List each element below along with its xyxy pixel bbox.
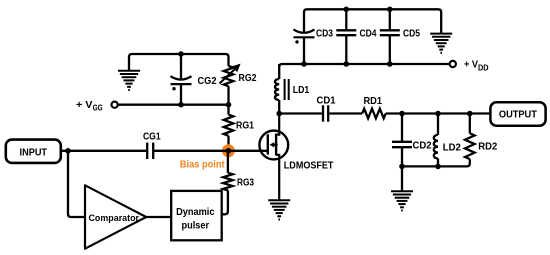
resistor RG3 <box>223 173 233 191</box>
svg-text:pulser: pulser <box>182 220 210 231</box>
OUTPUT box <box>490 102 545 125</box>
wire RG1 bottom lead <box>227 136 229 151</box>
capacitor CD1 <box>323 105 328 121</box>
bias point marker <box>222 144 235 157</box>
svg-text:GG: GG <box>93 104 103 113</box>
svg-text:RG3: RG3 <box>237 177 254 188</box>
INPUT box <box>6 140 61 163</box>
wire ground stem G4 <box>401 166 403 190</box>
node LD2 bottom junction <box>435 164 441 170</box>
resistor RD1 <box>362 109 386 119</box>
wire RD2 top lead <box>469 114 471 134</box>
wire cap-bank top rail <box>304 9 441 33</box>
svg-text:CG1: CG1 <box>143 131 161 142</box>
svg-text:RD1: RD1 <box>364 96 383 107</box>
dynamic pulser box <box>171 191 222 240</box>
node CD5 top junction <box>387 7 393 13</box>
ground G1 (gate bias) <box>118 71 140 90</box>
wire LD1 bottom lead <box>278 100 280 114</box>
wire input to CG1 <box>61 150 147 152</box>
ground G3 (cap bank) <box>430 34 452 53</box>
wire CD3 bottom lead <box>303 37 305 64</box>
node bias point junction <box>226 148 232 154</box>
svg-text:Comparator: Comparator <box>89 212 140 223</box>
wire CD5 top lead <box>389 9 391 30</box>
svg-text:LDMOSFET: LDMOSFET <box>284 161 334 172</box>
resistor RD2 <box>465 133 475 159</box>
wire top-left bias loop <box>129 54 229 71</box>
resistor RG1 <box>224 115 234 136</box>
svg-text:CD4: CD4 <box>360 28 377 39</box>
svg-text:CG2: CG2 <box>198 76 217 87</box>
capacitor CD4 <box>336 30 356 35</box>
capacitor CD3 <box>294 29 315 37</box>
node CD2 bottom junction <box>399 164 405 170</box>
node CD4 top junction <box>344 7 350 13</box>
terminal +VGG <box>112 102 118 108</box>
node CD4 bottom junction <box>344 61 350 67</box>
wire CG2 bottom lead <box>180 84 182 105</box>
node CD5 bottom junction <box>387 61 393 67</box>
wire RG1 top lead <box>227 105 229 115</box>
wire CD5 bottom lead <box>389 35 391 64</box>
wire RG3 top lead <box>227 151 229 173</box>
svg-text:+ V: + V <box>76 100 93 111</box>
wire comparator to pulser <box>146 216 171 218</box>
node input junction <box>65 148 71 154</box>
wire VGG rail <box>118 104 229 106</box>
node drain junction <box>276 111 282 117</box>
wire output shunt bottom rail <box>402 159 470 166</box>
wire CD4 bottom lead <box>345 35 347 64</box>
inductor LD1 <box>275 79 279 100</box>
node RG2/RG1 junction <box>226 102 232 108</box>
svg-text:CD3: CD3 <box>316 28 333 39</box>
wire VDD rail <box>279 64 449 67</box>
wire CD2 top lead <box>401 114 403 142</box>
svg-text:CD1: CD1 <box>317 96 336 107</box>
inductor LD2 <box>434 135 438 159</box>
wire gate line CG1 to MOSFET <box>154 150 268 152</box>
svg-text:CD5: CD5 <box>403 28 420 39</box>
svg-text:CD2: CD2 <box>413 140 432 151</box>
ground G2 (MOSFET source) <box>268 200 290 219</box>
wire CD4 top lead <box>345 9 347 30</box>
wire LD2 top lead <box>437 114 439 135</box>
wire CD1 to RD1 <box>329 112 362 114</box>
op-amp comparator <box>85 185 146 248</box>
wire RD1 to OUTPUT <box>386 112 491 114</box>
svg-text:DD: DD <box>478 63 489 72</box>
wire RG2 bottom lead <box>227 86 229 105</box>
svg-text:LD2: LD2 <box>443 142 461 153</box>
svg-text:LD1: LD1 <box>293 85 310 96</box>
wire drain to CD1 <box>279 112 322 114</box>
wire LD1 top lead <box>278 64 280 79</box>
node LD2 top junction <box>435 111 441 117</box>
svg-text:RG1: RG1 <box>236 121 254 132</box>
ground G4 (output shunt) <box>391 191 413 210</box>
transistor LDMOSFET <box>259 114 288 200</box>
wire RG3 to pulser <box>222 190 228 214</box>
resistor RG2 <box>224 66 234 86</box>
node CG2 top junction <box>178 51 184 57</box>
svg-text:Bias point: Bias point <box>180 159 225 170</box>
svg-text:RD2: RD2 <box>478 142 497 153</box>
RG2 variable arrow <box>220 64 241 84</box>
svg-text:INPUT: INPUT <box>20 147 48 158</box>
capacitor CG2 <box>171 76 192 84</box>
wire LD2 bottom lead <box>437 159 439 167</box>
node CD2 top junction <box>399 111 405 117</box>
svg-text:+ V: + V <box>464 60 478 71</box>
svg-text:RG2: RG2 <box>239 73 257 84</box>
wire CG2 top lead <box>180 54 182 79</box>
terminal +VDD <box>450 61 456 67</box>
wire CD2 bottom lead <box>401 147 403 166</box>
svg-text:OUTPUT: OUTPUT <box>499 110 538 121</box>
node output branch junction <box>467 111 473 117</box>
capacitor CG1 <box>147 143 153 159</box>
capacitor CD5 <box>380 30 400 35</box>
wire input to comparator <box>68 151 85 217</box>
node CD3 bottom junction <box>301 61 307 67</box>
node CG2/VGG rail junction <box>178 102 184 108</box>
capacitor CD2 <box>392 142 412 147</box>
svg-text:Dynamic: Dynamic <box>176 207 215 218</box>
